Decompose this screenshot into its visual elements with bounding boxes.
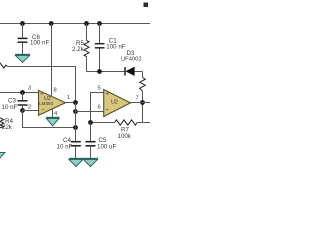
op-amp U2 LM393 (left half) xyxy=(39,90,66,115)
svg-text:10 nF: 10 nF xyxy=(2,104,18,111)
wire node R5/C1 to diode xyxy=(87,71,126,73)
wire pin2 xyxy=(23,110,39,112)
capacitor C1 xyxy=(95,24,126,72)
svg-text:100 nF: 100 nF xyxy=(106,44,125,51)
wire pin1 output to vertical bus xyxy=(66,102,76,104)
svg-text:LM393: LM393 xyxy=(39,101,53,106)
capacitor C5 xyxy=(86,137,117,158)
wire feedback horizontal xyxy=(8,67,76,103)
op-amp U2 (right half) xyxy=(104,90,131,117)
resistor R7 xyxy=(91,120,152,140)
node junction C1 bottom xyxy=(97,69,102,74)
svg-text:U2: U2 xyxy=(111,100,118,106)
svg-text:UF4002: UF4002 xyxy=(121,56,142,62)
node junction rail-pin8 xyxy=(49,21,54,26)
resistor R4 clipped at left edge xyxy=(0,118,13,131)
resistor R6 right vertical xyxy=(140,72,146,123)
diode D3 UF4002 xyxy=(121,50,143,76)
wire C5 stem xyxy=(90,123,92,142)
svg-text:5: 5 xyxy=(98,86,101,92)
svg-text:−: − xyxy=(41,107,45,114)
node junction pin6 tap xyxy=(73,109,78,114)
resistor R-feedback clipped at left edge xyxy=(0,62,8,68)
svg-text:−: − xyxy=(105,107,109,114)
node junction pin5/R7/C5 xyxy=(88,120,93,125)
wire pin3 input xyxy=(0,92,39,94)
ground below C6 xyxy=(15,55,30,63)
node junction output pin7 xyxy=(140,100,145,105)
wire top supply rail xyxy=(0,23,151,25)
svg-text:8: 8 xyxy=(54,88,57,94)
node junction C4 tap xyxy=(73,125,78,130)
wire pin2 node down and right xyxy=(23,111,76,128)
svg-text:100k: 100k xyxy=(118,133,132,140)
svg-text:+: + xyxy=(106,92,110,98)
capacitor C4 xyxy=(57,137,81,158)
capacitor C3 xyxy=(2,93,28,112)
title fragment top-right corner xyxy=(144,3,149,8)
wire pin5 route xyxy=(91,93,105,123)
node junction output bus xyxy=(73,100,78,105)
node junction rail-R5 xyxy=(84,21,89,26)
wire output pin7 to right edge xyxy=(129,102,152,104)
ground below C5 xyxy=(83,159,98,167)
svg-text:7: 7 xyxy=(136,96,139,102)
node junction C3 top xyxy=(20,90,25,95)
ground clipped bottom-left xyxy=(0,153,5,160)
ground below C4 xyxy=(69,159,84,167)
svg-text:2.2k: 2.2k xyxy=(72,46,85,53)
svg-text:2: 2 xyxy=(28,105,31,111)
wire pin8 vertical from rail xyxy=(51,24,53,96)
svg-text:100 uF: 100 uF xyxy=(97,144,116,151)
ground below op-amp U2A xyxy=(46,118,60,126)
resistor R5 xyxy=(72,24,89,72)
wire pin6 xyxy=(76,111,104,113)
wire pin4 stem xyxy=(52,109,54,118)
capacitor C6 xyxy=(18,24,50,55)
node junction rail-C1 xyxy=(97,21,102,26)
node junction rail-C6 xyxy=(20,21,25,26)
svg-text:100 nF: 100 nF xyxy=(30,40,49,47)
svg-text:3: 3 xyxy=(28,86,31,92)
wire bus down to C4 xyxy=(75,103,77,142)
svg-text:1: 1 xyxy=(67,95,70,101)
svg-text:10 nF: 10 nF xyxy=(57,144,73,151)
node junction C3 bottom / pin2 xyxy=(20,108,25,113)
svg-text:6: 6 xyxy=(98,105,101,111)
svg-text:22k: 22k xyxy=(2,124,13,131)
